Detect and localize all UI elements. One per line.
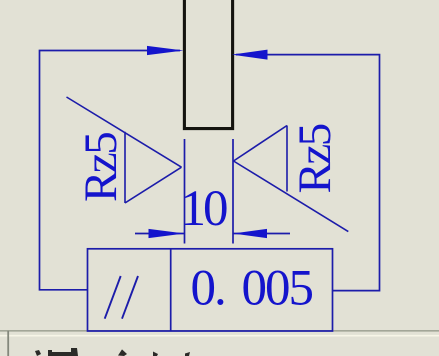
table border stub bottom-left (7, 331, 9, 356)
svg-text:10: 10 (181, 181, 228, 237)
roughness symbol left (long leg + short leg + bar) (67, 97, 182, 203)
dim 10 extension line left (184, 139, 186, 244)
svg-text:0. 005: 0. 005 (191, 261, 313, 317)
glyph tick 2 (185, 352, 190, 356)
arrowhead right (tip on part right edge) (232, 50, 268, 60)
wire: left leader of feature frame (40, 51, 181, 290)
glyph apex (118, 349, 127, 356)
part outline (184, 0, 232, 129)
glyph bar with ticks (48, 348, 78, 356)
sheet gray line behind frame bottom (0, 330, 439, 332)
feature control frame (88, 249, 333, 331)
frame divider (170, 249, 172, 331)
dim 10 arrowhead right (233, 229, 267, 238)
svg-text:Rz5: Rz5 (75, 133, 127, 202)
roughness symbol right (long leg + short leg + bar) (234, 126, 349, 232)
svg-text:Rz5: Rz5 (289, 124, 341, 193)
dim 10 arrowhead left (149, 229, 185, 238)
dim 10 extension line right (232, 139, 234, 244)
arrowhead left (tip on part left edge) (147, 46, 184, 55)
clipped caption glyph tops at bottom (35, 348, 190, 356)
wire: right leader of feature frame (236, 55, 380, 291)
glyph wedge (153, 352, 158, 356)
parallelism symbol // (105, 276, 121, 319)
glyph tick 1 (35, 350, 41, 356)
dim 10 line left part (135, 233, 185, 235)
sheet highlight line bottom (0, 335, 439, 337)
dim 10 line right part (233, 233, 290, 235)
